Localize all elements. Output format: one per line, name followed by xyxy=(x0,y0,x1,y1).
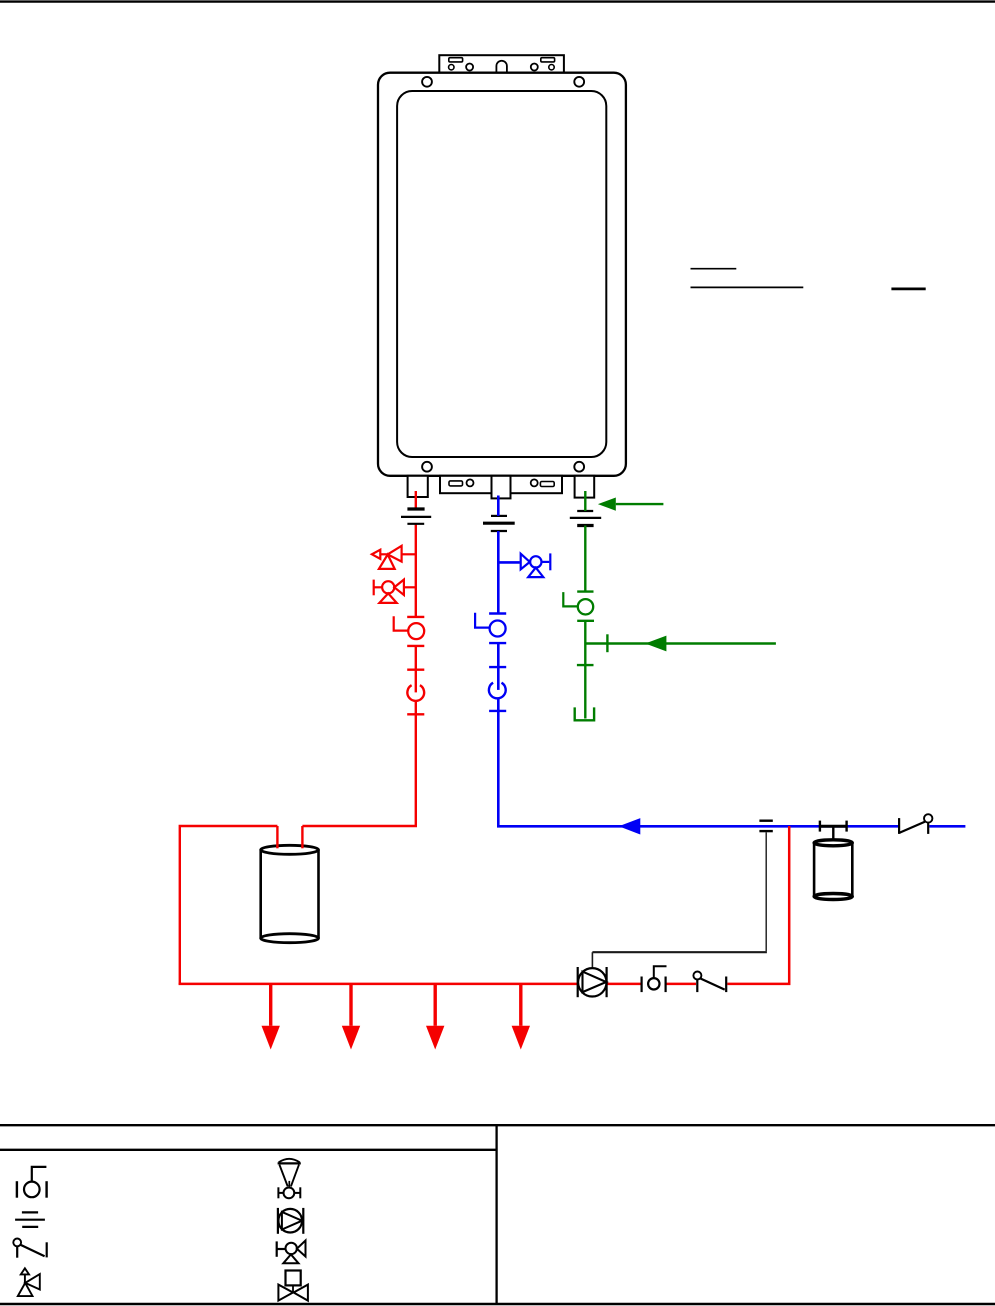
wire: timer switch up to cold main xyxy=(727,826,789,984)
heater front panel xyxy=(397,91,606,457)
legend: shutoff valve symbol xyxy=(17,1167,47,1198)
shutoff valve cold (blue) xyxy=(475,613,506,643)
expansion tank connector xyxy=(820,825,847,828)
union on hot outlet xyxy=(401,509,431,524)
cold supply flow arrow (blue) xyxy=(619,818,641,834)
terminal slot left xyxy=(449,481,463,486)
bypass 3-way valve (blue) xyxy=(521,553,551,577)
fixture arrow 4 (red) xyxy=(512,985,530,1050)
fixture arrow 2 (red) xyxy=(342,985,360,1050)
3-way drain valve (red) xyxy=(374,580,416,603)
gas shutoff valve (green) xyxy=(563,592,594,621)
wire: union to shutoff valve xyxy=(415,524,417,617)
case screw top-right xyxy=(574,77,584,87)
expansion tank ticks xyxy=(819,821,821,832)
pressure relief valve PRV (red) xyxy=(372,546,416,569)
pipe tick hot lower xyxy=(407,713,424,715)
shutoff valve hot (red) xyxy=(394,616,425,646)
bracket screw hole left small xyxy=(449,65,454,70)
wire: aquastat to timer switch xyxy=(666,983,696,986)
cold water pipe (blue) xyxy=(497,496,965,827)
legend: pump symbol xyxy=(278,1208,303,1234)
expansion tank stem xyxy=(832,826,834,840)
legend: gas valve symbol xyxy=(278,1271,308,1301)
vent arrow at gas stub (green) xyxy=(598,498,616,511)
legend header rule xyxy=(0,1149,497,1151)
wire: check fitting down then right to supply main xyxy=(497,698,899,826)
bracket screw hole right small xyxy=(549,65,554,70)
fixture arrow 1 (red) xyxy=(262,985,280,1050)
wire: cold inlet stub to union xyxy=(497,496,500,516)
legend: pressure relief valve symbol xyxy=(18,1268,40,1296)
text underline short xyxy=(691,268,737,270)
wall-mount bracket of heater xyxy=(439,55,564,72)
terminal hole right xyxy=(531,479,538,486)
sediment trap (green) xyxy=(575,707,594,720)
legend: 3-way valve symbol xyxy=(277,1241,306,1264)
legend table top border xyxy=(0,1124,995,1126)
gas pipe (green) xyxy=(584,491,586,719)
wire: cold shutoff to check fitting xyxy=(497,643,500,690)
legend: pressure reducing valve symbol xyxy=(278,1159,301,1199)
storage tank xyxy=(261,845,319,942)
text underline long xyxy=(691,286,804,288)
tank outlet pipe (red) xyxy=(301,826,303,848)
timer switch on return (black) xyxy=(693,972,726,993)
union on gas inlet xyxy=(570,511,601,526)
bracket keyhole xyxy=(496,61,507,73)
gas inlet stub xyxy=(575,476,595,498)
bracket slot left xyxy=(449,58,463,62)
temperature sensor tap bars xyxy=(759,820,772,822)
legend: union symbol xyxy=(15,1212,45,1227)
wire: shutoff valve to check fitting xyxy=(415,646,417,693)
fixture arrow 3 (red) xyxy=(426,985,444,1050)
bottom terminal bracket xyxy=(440,476,562,493)
case screw bottom-left xyxy=(422,462,432,472)
hot water outlet stub xyxy=(408,476,428,497)
check fitting hot (open circle) xyxy=(407,685,424,701)
wire: tank outlet run left and down to loop xyxy=(180,826,278,984)
cold water inlet stub xyxy=(492,476,511,499)
case screw top-left xyxy=(422,77,432,87)
page top rule xyxy=(0,0,995,2)
wire: check fitting down and left to tank inlet tee xyxy=(302,701,415,826)
pipe tick cold upper xyxy=(489,666,506,668)
bracket hole right xyxy=(531,64,538,71)
text underline right xyxy=(891,287,925,290)
gas branch tick xyxy=(606,634,608,652)
terminal slot right xyxy=(540,482,554,487)
gas supply branch (green) xyxy=(585,642,776,644)
wire: gas valve down to sediment trap xyxy=(584,621,586,719)
flow switch on cold line (black) xyxy=(899,814,932,834)
tank inlet pipe (red) xyxy=(276,826,278,848)
gas flow arrow (green) xyxy=(645,636,666,652)
wire: gas stub to union xyxy=(584,491,586,511)
wire: union to gas shutoff valve xyxy=(584,526,586,592)
legend column divider xyxy=(495,1125,497,1304)
aquastat (circle with flag) xyxy=(642,966,667,992)
bracket slot right xyxy=(541,58,555,62)
water heater outer case xyxy=(378,73,626,476)
pipe tick hot upper xyxy=(407,669,424,671)
legend table bottom border xyxy=(0,1303,995,1306)
cold branch tee to bypass valve xyxy=(498,561,520,564)
case screw bottom-right xyxy=(574,462,584,472)
hot water pipe (red) xyxy=(180,491,416,984)
pipe tick cold lower xyxy=(489,710,506,712)
union on cold inlet xyxy=(483,516,515,531)
control wire from sensor to pump (black) xyxy=(765,832,767,951)
legend: flow switch symbol xyxy=(13,1239,46,1258)
gas vertical tick xyxy=(577,664,594,666)
recirculation return line (red bottom loop) xyxy=(180,826,789,984)
recirculation pump xyxy=(578,967,607,997)
wire: pump to aquastat xyxy=(607,983,641,986)
check fitting cold (open circle) xyxy=(489,683,506,699)
vent line (green) xyxy=(616,503,664,505)
wire: hot outlet stub to union xyxy=(415,491,417,509)
expansion tank body xyxy=(814,840,852,900)
bracket hole left xyxy=(466,64,473,71)
wire: cold main after flow switch xyxy=(929,825,965,828)
terminal hole left xyxy=(467,479,474,486)
wire: union to cold shutoff valve xyxy=(497,531,500,614)
wire: bottom distribution run to pump xyxy=(180,983,580,984)
